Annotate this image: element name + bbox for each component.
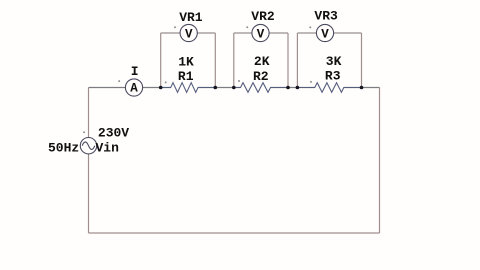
svg-text:3K: 3K bbox=[326, 54, 342, 69]
wire: VR3 loop right vertical bbox=[361, 33, 363, 88]
wire: VR2 loop left vertical bbox=[233, 33, 235, 88]
svg-text:R1: R1 bbox=[178, 69, 194, 84]
terminal marker (VR3) bbox=[309, 26, 311, 28]
svg-text:VR1: VR1 bbox=[179, 10, 203, 25]
wire: left vertical lower (source to bottom) bbox=[88, 154, 90, 233]
terminal marker (R2) bbox=[238, 80, 240, 82]
svg-text:R3: R3 bbox=[325, 68, 341, 83]
svg-text:1K: 1K bbox=[178, 54, 194, 69]
wire: main line R2 to R3 bbox=[271, 87, 315, 89]
AC source sine wave bbox=[82, 142, 95, 150]
svg-text:VR2: VR2 bbox=[251, 9, 275, 24]
svg-text:V: V bbox=[185, 27, 193, 41]
svg-text:V: V bbox=[321, 27, 329, 41]
wire: main line R1 to R2 bbox=[198, 87, 241, 89]
svg-text:Vin: Vin bbox=[96, 141, 120, 156]
terminal marker (ammeter) bbox=[118, 80, 120, 82]
wire: VR3 loop left vertical bbox=[296, 33, 298, 88]
voltmeter VR3 (circle) bbox=[316, 24, 333, 41]
terminal marker (VR2) bbox=[246, 26, 248, 28]
wire: VR2 loop right vertical bbox=[287, 33, 289, 88]
svg-text:2K: 2K bbox=[254, 54, 270, 69]
voltmeter VR2 (circle) bbox=[252, 24, 269, 41]
node junction dot (VR2 left) bbox=[232, 86, 236, 90]
voltmeter VR1 (circle) bbox=[180, 24, 197, 41]
resistor R3 bbox=[297, 83, 361, 93]
node junction dot (VR1 right) bbox=[214, 86, 218, 90]
terminal marker (R1) bbox=[165, 81, 167, 83]
resistor R2 bbox=[234, 83, 288, 93]
wire: main line corner to ammeter bbox=[89, 87, 126, 89]
terminal marker (R3) bbox=[310, 81, 312, 83]
AC source Vin (circle) bbox=[80, 138, 96, 154]
terminal marker (source) bbox=[83, 131, 85, 133]
svg-text:VR3: VR3 bbox=[314, 9, 338, 24]
svg-text:R2: R2 bbox=[253, 69, 269, 84]
wire: right vertical bbox=[379, 88, 381, 234]
svg-text:50Hz: 50Hz bbox=[48, 141, 79, 156]
node junction dot (VR2 right) bbox=[286, 86, 290, 90]
wire: bottom horizontal bbox=[89, 232, 380, 234]
wire: VR1 loop left vertical bbox=[160, 33, 162, 88]
wire: VR2 loop top horizontal bbox=[234, 32, 288, 34]
node junction dot (VR3 left) bbox=[296, 86, 300, 90]
svg-text:V: V bbox=[257, 27, 265, 41]
wire: VR3 loop top horizontal bbox=[297, 32, 361, 34]
wire: VR1 loop top horizontal bbox=[161, 32, 216, 34]
svg-text:230V: 230V bbox=[98, 126, 129, 141]
svg-text:I: I bbox=[131, 64, 139, 79]
svg-text:A: A bbox=[130, 82, 138, 96]
ammeter U-A (circle) bbox=[125, 79, 142, 96]
wire: VR1 loop right vertical bbox=[214, 33, 216, 88]
wire: main line ammeter to R1 bbox=[143, 87, 171, 89]
resistor R1 bbox=[161, 83, 216, 93]
node junction dot (VR3 right) bbox=[360, 86, 364, 90]
wire: main line R3 to right corner bbox=[344, 87, 380, 89]
terminal marker (VR1) bbox=[174, 26, 176, 28]
wire: left vertical upper (source to main line) bbox=[88, 88, 90, 138]
node junction dot (VR1 left) bbox=[159, 86, 163, 90]
